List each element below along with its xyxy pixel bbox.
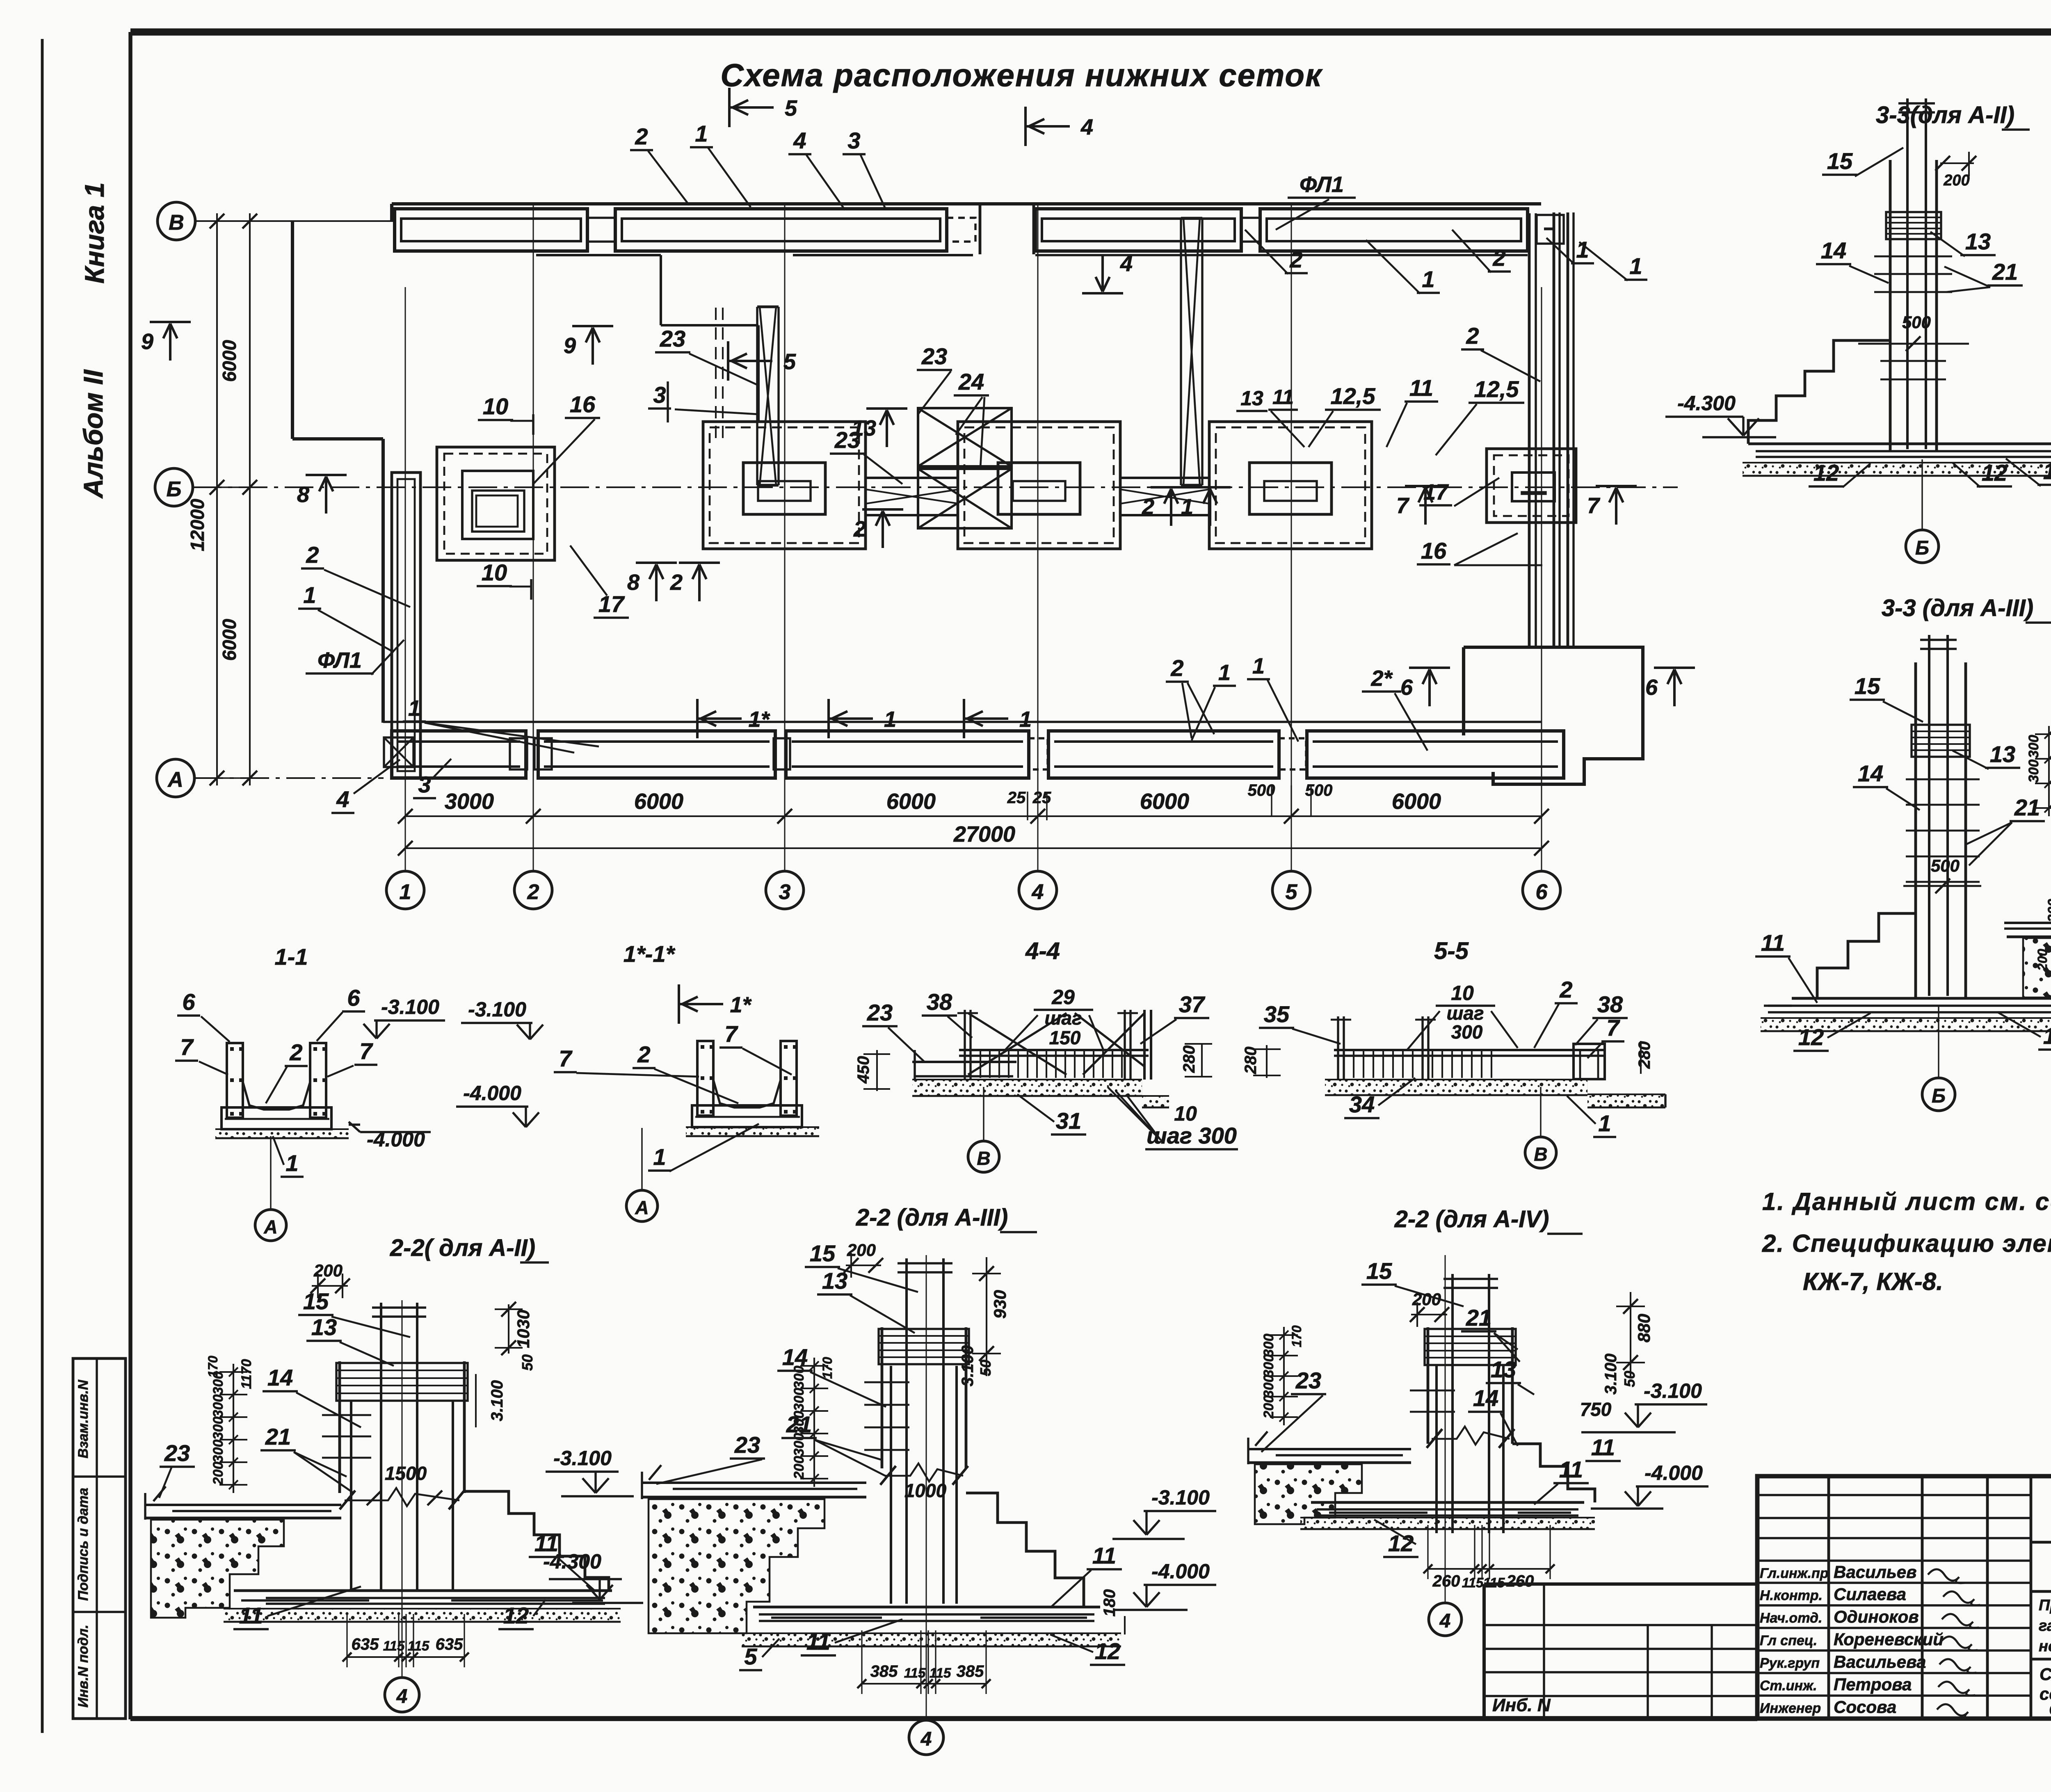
svg-text:11: 11 [806, 1629, 830, 1655]
svg-text:500: 500 [1931, 856, 1960, 875]
svg-text:2-2( для А-II): 2-2( для А-II) [390, 1235, 535, 1261]
svg-text:170: 170 [820, 1357, 835, 1379]
svg-text:15: 15 [810, 1240, 836, 1266]
svg-text:5: 5 [785, 96, 797, 121]
svg-text:4-4: 4-4 [1025, 938, 1060, 964]
svg-text:385: 385 [957, 1662, 984, 1680]
svg-text:50: 50 [1621, 1371, 1638, 1387]
svg-text:Кореневский: Кореневский [1834, 1630, 1944, 1649]
svg-text:750: 750 [1580, 1399, 1612, 1420]
svg-text:Инв.N подл.: Инв.N подл. [75, 1625, 91, 1708]
svg-text:Сосова: Сосова [1834, 1697, 1896, 1717]
svg-text:200: 200 [1943, 172, 1969, 189]
svg-text:34: 34 [1349, 1091, 1375, 1117]
svg-text:385: 385 [870, 1662, 898, 1680]
svg-text:7: 7 [724, 1021, 738, 1047]
svg-text:300: 300 [1451, 1021, 1483, 1043]
svg-text:13: 13 [311, 1314, 337, 1340]
svg-text:Одиноков: Одиноков [1834, 1607, 1919, 1626]
svg-text:11: 11 [1591, 1434, 1615, 1460]
svg-text:-3.100: -3.100 [553, 1447, 612, 1470]
svg-text:4: 4 [1120, 251, 1133, 276]
svg-text:200: 200 [210, 1462, 226, 1486]
svg-text:1170: 1170 [239, 1359, 254, 1389]
svg-text:1500: 1500 [385, 1463, 427, 1484]
svg-text:200: 200 [1412, 1290, 1441, 1309]
svg-text:13: 13 [1965, 228, 1991, 254]
svg-text:9: 9 [141, 329, 153, 354]
svg-text:-3.100: -3.100 [381, 995, 439, 1018]
svg-text:16: 16 [570, 391, 596, 417]
svg-text:2: 2 [1170, 655, 1183, 681]
svg-text:Нач.отд.: Нач.отд. [1760, 1610, 1822, 1626]
svg-text:1. Данный лист см. совместно: 1. Данный лист см. совместно с листами К… [1762, 1188, 2051, 1215]
svg-text:10: 10 [482, 559, 507, 585]
svg-text:12000: 12000 [187, 499, 208, 551]
svg-text:38: 38 [927, 989, 952, 1015]
svg-text:6: 6 [182, 989, 195, 1015]
svg-text:27000: 27000 [953, 822, 1015, 847]
svg-text:1: 1 [1422, 266, 1434, 292]
svg-text:Ст.инж.: Ст.инж. [1760, 1678, 1817, 1694]
svg-text:450: 450 [854, 1056, 872, 1084]
svg-text:12: 12 [1813, 460, 1839, 486]
svg-text:17: 17 [598, 591, 625, 617]
svg-text:-3.100: -3.100 [468, 998, 526, 1021]
svg-text:2: 2 [637, 1041, 650, 1067]
svg-text:300: 300 [2026, 735, 2042, 758]
svg-text:3.100: 3.100 [1602, 1354, 1620, 1395]
svg-text:1: 1 [1019, 707, 1032, 732]
svg-text:1: 1 [408, 696, 420, 721]
svg-text:10: 10 [483, 393, 508, 419]
svg-text:280: 280 [1635, 1041, 1654, 1069]
svg-text:Инб. N: Инб. N [1492, 1695, 1551, 1715]
svg-text:2: 2 [306, 542, 319, 568]
svg-text:15: 15 [1366, 1258, 1392, 1284]
svg-text:115: 115 [408, 1638, 429, 1653]
svg-text:2: 2 [1466, 323, 1479, 349]
svg-text:635: 635 [352, 1635, 379, 1653]
svg-text:Н.контр.: Н.контр. [1760, 1588, 1823, 1603]
svg-text:Схема расположения нижних сето: Схема расположения нижних сеток [720, 57, 1323, 93]
svg-text:1*-1*: 1*-1* [624, 941, 676, 967]
svg-text:170: 170 [1289, 1325, 1304, 1347]
svg-text:170: 170 [206, 1356, 220, 1378]
svg-text:13: 13 [822, 1268, 847, 1294]
svg-text:но стоящее заглубленное: но стоящее заглубленное [2039, 1638, 2051, 1655]
svg-text:Производственное здание вспомо: Производственное здание вспомо- [2039, 1597, 2051, 1614]
svg-text:5: 5 [1286, 880, 1298, 904]
svg-text:23: 23 [921, 343, 947, 369]
svg-text:3: 3 [779, 880, 791, 904]
svg-text:Гл спец.: Гл спец. [1760, 1633, 1817, 1648]
svg-text:-3.100: -3.100 [1151, 1486, 1210, 1509]
svg-text:1: 1 [303, 582, 316, 608]
svg-text:12: 12 [1388, 1530, 1414, 1556]
svg-text:5: 5 [783, 349, 796, 374]
svg-text:7: 7 [1587, 493, 1601, 518]
svg-text:1: 1 [1252, 654, 1265, 678]
svg-text:2: 2 [289, 1039, 302, 1065]
svg-text:2: 2 [670, 570, 683, 595]
svg-text:3-3(для А-II): 3-3(для А-II) [1876, 102, 2014, 128]
svg-text:9: 9 [564, 333, 576, 358]
svg-text:А: А [263, 1216, 277, 1237]
svg-text:5-5: 5-5 [1434, 938, 1469, 964]
svg-text:-4.300: -4.300 [1677, 392, 1736, 415]
svg-text:В: В [1534, 1144, 1547, 1165]
svg-text:6: 6 [347, 985, 360, 1011]
svg-text:300: 300 [210, 1395, 226, 1418]
svg-text:6: 6 [1645, 675, 1658, 700]
svg-text:29: 29 [1051, 986, 1075, 1009]
svg-text:2: 2 [1289, 247, 1302, 272]
svg-text:35: 35 [1264, 1001, 1290, 1027]
svg-text:1: 1 [1181, 495, 1193, 519]
svg-text:13: 13 [1990, 741, 2015, 767]
svg-text:6000: 6000 [219, 619, 240, 661]
svg-text:4: 4 [793, 128, 806, 153]
svg-text:12,5: 12,5 [1331, 383, 1376, 409]
svg-text:14: 14 [1821, 237, 1846, 263]
svg-text:3-3 (для А-III): 3-3 (для А-III) [1882, 595, 2033, 621]
svg-text:Схема расположения нижних: Схема расположения нижних [2040, 1664, 2051, 1684]
svg-text:6000: 6000 [886, 789, 936, 814]
svg-text:500: 500 [1305, 781, 1333, 799]
svg-text:2: 2 [635, 123, 648, 149]
svg-text:1: 1 [400, 880, 411, 904]
svg-text:Силаева: Силаева [1834, 1584, 1906, 1604]
svg-text:2-2 (для А-IV): 2-2 (для А-IV) [1394, 1206, 1549, 1233]
svg-text:6: 6 [1400, 675, 1413, 700]
svg-text:150: 150 [1049, 1027, 1081, 1048]
svg-text:260: 260 [1506, 1572, 1534, 1590]
svg-text:7: 7 [1606, 1015, 1620, 1041]
svg-text:2: 2 [527, 880, 539, 904]
svg-text:31: 31 [1056, 1108, 1081, 1134]
svg-text:21: 21 [1466, 1305, 1491, 1331]
svg-text:300: 300 [210, 1440, 226, 1463]
svg-text:260: 260 [1432, 1572, 1460, 1590]
svg-text:Б: Б [167, 477, 182, 501]
svg-text:2. Спецификацию элементов к с: 2. Спецификацию элементов к схеме см. ли… [1762, 1230, 2051, 1257]
svg-text:635: 635 [436, 1635, 463, 1653]
svg-text:1: 1 [1218, 660, 1231, 685]
svg-text:180: 180 [1101, 1589, 1119, 1617]
svg-text:12,5: 12,5 [1474, 376, 1519, 402]
svg-text:12: 12 [1982, 460, 2007, 486]
svg-text:50: 50 [977, 1360, 994, 1376]
svg-text:1: 1 [884, 707, 896, 732]
svg-text:-4.000: -4.000 [1151, 1560, 1210, 1583]
svg-text:14: 14 [1473, 1385, 1498, 1411]
svg-text:200: 200 [2035, 949, 2050, 971]
svg-text:7: 7 [559, 1046, 573, 1071]
svg-text:-4.000: -4.000 [463, 1082, 521, 1105]
svg-text:КЖ-7, КЖ-8.: КЖ-7, КЖ-8. [1803, 1268, 1943, 1295]
svg-text:37: 37 [1179, 991, 1206, 1017]
svg-text:25: 25 [1007, 789, 1026, 807]
svg-text:4: 4 [1032, 880, 1044, 904]
svg-text:8: 8 [297, 482, 309, 507]
svg-text:11: 11 [1409, 375, 1433, 401]
svg-text:Васильев: Васильев [1834, 1562, 1917, 1582]
svg-text:Рук.груп: Рук.груп [1760, 1655, 1820, 1671]
svg-text:1030: 1030 [514, 1310, 533, 1348]
svg-text:300: 300 [2026, 760, 2042, 783]
svg-text:15: 15 [1827, 148, 1853, 174]
svg-text:8: 8 [627, 570, 640, 595]
svg-text:16: 16 [1421, 538, 1447, 564]
svg-text:23: 23 [1295, 1367, 1321, 1393]
svg-text:7: 7 [359, 1038, 373, 1064]
svg-text:23: 23 [867, 1000, 893, 1025]
svg-text:3.100: 3.100 [959, 1345, 977, 1386]
svg-text:13: 13 [1240, 387, 1263, 410]
svg-text:Подпись и дата: Подпись и дата [75, 1488, 91, 1601]
svg-text:38: 38 [1597, 991, 1623, 1017]
svg-text:11: 11 [1092, 1543, 1116, 1568]
svg-text:Васильева: Васильева [1834, 1652, 1926, 1671]
svg-text:13: 13 [1491, 1356, 1516, 1382]
svg-text:А: А [635, 1197, 649, 1218]
svg-text:6: 6 [1536, 880, 1548, 904]
svg-text:4: 4 [1080, 115, 1093, 139]
svg-text:14: 14 [782, 1344, 808, 1370]
svg-text:300: 300 [2045, 899, 2051, 922]
svg-text:1: 1 [695, 121, 708, 146]
svg-text:А: А [167, 768, 183, 792]
svg-text:23: 23 [834, 427, 860, 453]
svg-text:115: 115 [930, 1665, 951, 1680]
svg-text:1*: 1* [748, 707, 770, 732]
svg-text:6000: 6000 [219, 340, 240, 382]
svg-text:2*: 2* [1370, 666, 1393, 691]
svg-text:2: 2 [853, 517, 866, 541]
svg-text:6000: 6000 [634, 789, 683, 814]
svg-text:1: 1 [285, 1150, 298, 1176]
svg-text:11: 11 [239, 1603, 263, 1628]
svg-text:115: 115 [1462, 1575, 1484, 1590]
svg-text:3: 3 [847, 128, 860, 153]
svg-text:1: 1 [1598, 1110, 1611, 1136]
svg-text:23: 23 [734, 1432, 760, 1458]
svg-text:2: 2 [1142, 495, 1154, 519]
svg-text:24: 24 [958, 369, 984, 395]
svg-text:14: 14 [1858, 760, 1883, 786]
svg-text:300: 300 [1261, 1375, 1277, 1398]
svg-text:4: 4 [920, 1728, 932, 1750]
svg-text:17: 17 [1423, 480, 1449, 504]
svg-text:300: 300 [1261, 1354, 1277, 1378]
svg-text:4: 4 [396, 1686, 408, 1708]
svg-text:1000: 1000 [904, 1480, 947, 1501]
svg-text:2-2 (для А-III): 2-2 (для А-III) [856, 1204, 1008, 1231]
svg-text:21: 21 [1992, 259, 2018, 285]
svg-text:7: 7 [1396, 493, 1410, 518]
svg-text:930: 930 [990, 1290, 1010, 1319]
svg-text:гательного назначения отдель-: гательного назначения отдель- [2039, 1617, 2051, 1634]
svg-text:1: 1 [1629, 253, 1642, 279]
svg-text:21: 21 [786, 1411, 812, 1437]
svg-text:7: 7 [180, 1034, 194, 1060]
svg-text:200: 200 [1261, 1395, 1277, 1419]
svg-text:Инженер: Инженер [1760, 1701, 1821, 1716]
svg-text:Б: Б [1932, 1085, 1946, 1107]
svg-text:280: 280 [1242, 1047, 1260, 1075]
svg-text:1: 1 [1576, 237, 1589, 263]
svg-text:4: 4 [336, 786, 349, 812]
svg-text:2: 2 [1559, 977, 1572, 1002]
svg-text:6000: 6000 [1140, 789, 1189, 814]
svg-text:-4.000: -4.000 [1644, 1461, 1703, 1484]
svg-text:10: 10 [1451, 982, 1474, 1004]
svg-text:21: 21 [265, 1424, 291, 1450]
svg-text:12: 12 [2043, 1023, 2051, 1049]
svg-text:Гл.инж.пр: Гл.инж.пр [1760, 1566, 1829, 1581]
svg-text:шаг 300: шаг 300 [1147, 1123, 1237, 1148]
svg-text:300: 300 [210, 1417, 226, 1440]
svg-text:ФЛ1: ФЛ1 [317, 648, 362, 673]
svg-text:880: 880 [1634, 1314, 1654, 1342]
svg-text:5: 5 [744, 1644, 757, 1669]
svg-text:11: 11 [534, 1530, 558, 1556]
svg-text:Б: Б [1915, 537, 1929, 559]
svg-text:280: 280 [1180, 1046, 1198, 1073]
svg-text:23: 23 [660, 326, 685, 352]
svg-text:14: 14 [267, 1365, 293, 1390]
svg-text:4: 4 [1439, 1610, 1451, 1632]
svg-text:11: 11 [1272, 386, 1294, 409]
svg-text:11: 11 [1559, 1456, 1583, 1482]
svg-text:6000: 6000 [1392, 789, 1441, 814]
svg-text:11: 11 [1761, 930, 1785, 956]
svg-text:23: 23 [164, 1440, 190, 1466]
svg-text:300: 300 [791, 1388, 807, 1411]
svg-text:10: 10 [1174, 1102, 1197, 1125]
svg-text:Альбом II: Альбом II [78, 369, 108, 499]
svg-text:В: В [977, 1148, 990, 1169]
svg-text:12: 12 [503, 1603, 529, 1628]
svg-text:25: 25 [1032, 789, 1051, 807]
svg-text:300: 300 [1261, 1334, 1277, 1357]
svg-text:500: 500 [1902, 313, 1931, 332]
svg-text:12: 12 [1095, 1638, 1120, 1664]
svg-text:200: 200 [791, 1456, 807, 1480]
svg-text:2: 2 [1492, 245, 1505, 271]
svg-text:3000: 3000 [445, 789, 494, 814]
svg-text:12: 12 [1798, 1024, 1824, 1050]
svg-text:ФЛ1: ФЛ1 [1300, 172, 1344, 197]
svg-text:Книга 1: Книга 1 [79, 183, 110, 284]
svg-text:11: 11 [2043, 458, 2051, 484]
svg-text:3: 3 [653, 382, 666, 408]
svg-text:1-1: 1-1 [275, 944, 308, 970]
svg-text:-3.100: -3.100 [1644, 1379, 1702, 1402]
svg-text:1*: 1* [730, 993, 752, 1017]
svg-text:15: 15 [1855, 673, 1880, 699]
svg-text:3: 3 [418, 772, 431, 797]
svg-text:Взам.инв.N: Взам.инв.N [75, 1379, 91, 1459]
svg-text:1: 1 [653, 1144, 666, 1170]
svg-text:50: 50 [519, 1354, 536, 1371]
svg-text:В: В [169, 211, 184, 235]
svg-text:21: 21 [2014, 794, 2040, 820]
svg-text:15: 15 [303, 1288, 329, 1314]
svg-text:Петрова: Петрова [1834, 1675, 1912, 1694]
svg-text:115: 115 [904, 1665, 926, 1680]
svg-text:Сечения 1-1 ... 5-5 , 7-7: Сечения 1-1 ... 5-5 , 7-7 [2049, 1700, 2051, 1719]
svg-text:3.100: 3.100 [488, 1380, 506, 1421]
